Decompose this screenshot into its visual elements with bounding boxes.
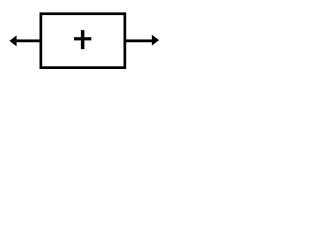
wire: left output line: [15, 39, 41, 42]
plus symbol (+) label inside block: [74, 30, 91, 49]
wire: right output line: [125, 39, 153, 42]
right arrowhead: [152, 35, 159, 46]
summing block U1 (rectangle): [41, 14, 125, 68]
left arrowhead: [9, 35, 16, 46]
